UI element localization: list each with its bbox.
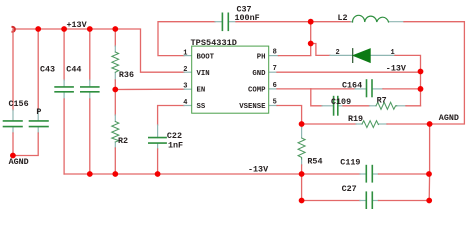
wire C156 bottom: [12, 127, 14, 133]
svg-text:1nF: 1nF: [168, 140, 183, 150]
junction C27 left: [299, 198, 305, 204]
wire COMP to C164 left: [311, 88, 355, 90]
wire C22/SS branch: [158, 106, 184, 126]
capacitor C37: [222, 13, 228, 30]
wire C43 bottom to -13V rail: [63, 93, 65, 99]
svg-text:AGND: AGND: [439, 113, 459, 123]
wire jog to diode anode: [311, 44, 330, 56]
junction C164/-13V: [418, 86, 424, 92]
wire diode cathode to right vertical: [371, 54, 396, 56]
svg-text:C164: C164: [342, 81, 362, 91]
svg-text:GND: GND: [252, 70, 266, 78]
junction BOOT/C37/L2: [308, 19, 314, 25]
inductor L2: [353, 15, 389, 22]
wire pin4 stub: [184, 105, 192, 107]
svg-text:R54: R54: [307, 157, 322, 167]
svg-text:3: 3: [183, 83, 187, 91]
svg-text:C109: C109: [331, 97, 351, 107]
wire BOOT loop to C37: [158, 22, 215, 56]
capacitor P: [30, 121, 49, 127]
svg-text:2: 2: [336, 49, 340, 57]
wire C27 right: [373, 200, 379, 202]
wire C44 top: [89, 29, 91, 80]
svg-text:8: 8: [273, 49, 277, 57]
svg-text:C22: C22: [167, 131, 182, 141]
svg-text:COMP: COMP: [248, 87, 266, 95]
svg-text:-13V: -13V: [386, 63, 407, 73]
wire GND pin7 to -13V node: [269, 71, 277, 73]
svg-text:-13V: -13V: [248, 164, 269, 174]
junction GND/-13V: [418, 69, 424, 75]
junction +13V/P-cap: [35, 26, 41, 32]
wire L2 right to -13V output corner: [389, 21, 405, 23]
wire C43 top: [63, 29, 65, 80]
svg-text:C156: C156: [9, 99, 29, 109]
resistor R19: [362, 121, 378, 128]
svg-text:AGND: AGND: [9, 157, 29, 167]
wire R7 right to -13V vertical: [397, 105, 406, 107]
svg-text:R2: R2: [118, 136, 128, 146]
svg-text:VSENSE: VSENSE: [239, 103, 266, 111]
svg-text:6: 6: [273, 82, 277, 90]
wire R19 right to AGND: [378, 123, 387, 125]
wire R2 top: [114, 90, 116, 116]
capacitor C109: [334, 97, 338, 115]
svg-text:L2: L2: [338, 13, 348, 23]
wire pin1 stub: [184, 55, 192, 57]
diode D1 (pins 2,1): [353, 49, 371, 63]
wire PH vertical node: [310, 22, 312, 56]
junction +13V/C43: [61, 26, 67, 32]
IC U1 TPS54331D body: [192, 46, 269, 113]
wire AGND right vertical: [428, 124, 430, 201]
wire PH pin8: [269, 55, 279, 57]
wire VSENSE node to R19: [302, 123, 356, 125]
wire top node to L2: [311, 21, 351, 23]
svg-text:R36: R36: [119, 70, 134, 80]
capacitor C22: [149, 138, 166, 144]
junction R54/C119: [299, 171, 305, 177]
svg-text:BOOT: BOOT: [197, 53, 215, 61]
wire -13V bottom rail: [64, 173, 302, 175]
resistor R2: [112, 122, 119, 143]
wire COMP down to C109: [311, 89, 322, 106]
wire C37 right to PH node: [229, 21, 236, 23]
junction C119/AGND vertical: [426, 171, 432, 177]
wire C156 top: [12, 29, 14, 110]
capacitor C164: [367, 80, 373, 97]
svg-text:7: 7: [273, 65, 277, 73]
svg-text:PH: PH: [257, 53, 266, 61]
svg-text:C43: C43: [40, 64, 55, 74]
svg-text:P: P: [36, 107, 41, 117]
wire P-cap top: [37, 29, 39, 110]
junction EN/R36/R2: [112, 87, 118, 93]
svg-text:SS: SS: [197, 103, 206, 111]
junction R2/-13V rail: [112, 171, 118, 177]
svg-text:R7: R7: [377, 95, 387, 105]
svg-text:VIN: VIN: [197, 70, 210, 78]
junction AGND left: [10, 153, 16, 159]
capacitor C43: [55, 87, 73, 92]
capacitor C44: [81, 87, 99, 92]
resistor R54: [298, 138, 305, 159]
svg-text:4: 4: [183, 99, 187, 107]
svg-text:+13V: +13V: [67, 20, 88, 30]
wire C109 to R7: [338, 105, 343, 107]
wire C119 row: [302, 173, 360, 175]
wire P-cap bottom to AGND: [37, 127, 39, 133]
junction C22/-13V rail: [155, 171, 161, 177]
svg-text:1: 1: [183, 49, 187, 57]
svg-text:5: 5: [273, 99, 277, 107]
resistor R36: [112, 52, 119, 72]
wire +13V rail: [13, 29, 184, 72]
svg-text:EN: EN: [197, 87, 206, 95]
capacitor C156: [4, 121, 23, 127]
junction VSENSE/R19/R54: [299, 121, 305, 127]
svg-text:C44: C44: [66, 64, 81, 74]
capacitor C119: [366, 166, 372, 182]
node +13V hook (wire end): [13, 27, 15, 32]
wire pin2 stub: [184, 71, 192, 73]
svg-text:100nF: 100nF: [235, 13, 260, 23]
wire R36 bottom / EN node: [114, 72, 116, 80]
wire EN to pin3: [115, 88, 184, 90]
wire pin3 stub: [184, 88, 192, 90]
wire VSENSE pin5: [269, 105, 277, 107]
wire R54 bottom: [301, 159, 303, 165]
junction +13V/C44: [87, 26, 93, 32]
svg-text:R19: R19: [348, 114, 363, 124]
junction +13V/R36: [112, 26, 118, 32]
resistor R7: [376, 102, 397, 109]
svg-text:C119: C119: [340, 157, 360, 167]
wire R2 bottom: [114, 142, 116, 148]
junction C27 right: [426, 198, 432, 204]
wire R54 top: [301, 124, 303, 127]
wire C164 right: [373, 88, 383, 90]
wire C27 branch left: [302, 174, 360, 201]
wire COMP pin6: [269, 88, 277, 90]
svg-text:C27: C27: [342, 184, 357, 194]
svg-text:TPS54331D: TPS54331D: [191, 38, 237, 48]
junction R19/AGND right: [427, 121, 433, 127]
wire C22 bottom: [157, 143, 159, 149]
svg-text:1: 1: [391, 49, 395, 57]
wire C44 bottom: [89, 93, 91, 99]
wire R36 top: [114, 29, 116, 46]
capacitor C27: [366, 192, 372, 208]
junction PH/diode: [308, 41, 314, 47]
svg-text:2: 2: [183, 66, 187, 74]
junction C44/-13V rail: [87, 171, 93, 177]
